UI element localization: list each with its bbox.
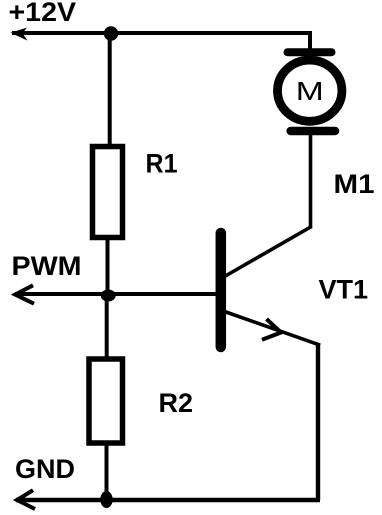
node junction at +12V rail: [104, 26, 118, 40]
emitter arrowhead: [262, 319, 281, 340]
svg-text:PWM: PWM: [12, 251, 82, 281]
node junction at GND rail: [100, 491, 112, 508]
wire R2 to GND rail: [105, 443, 109, 500]
resistor R2: [89, 359, 123, 443]
svg-text:R1: R1: [146, 148, 178, 178]
resistor R1: [93, 147, 123, 238]
svg-text:M: M: [296, 76, 324, 106]
arrowhead +12V input: [11, 28, 28, 41]
wire PWM node to R2: [105, 294, 109, 360]
emitter lead: [225, 312, 321, 346]
motor top brush bar: [288, 48, 332, 56]
wire GND rail: [16, 498, 320, 503]
arrowhead GND input: [17, 490, 35, 509]
svg-text:GND: GND: [15, 454, 75, 484]
wire R1 to PWM node: [106, 237, 110, 294]
svg-text:M1: M1: [334, 169, 375, 199]
svg-text:R2: R2: [159, 388, 194, 418]
wire +12V top rail: [12, 31, 312, 35]
wire emitter to GND rail: [316, 344, 320, 501]
base bar: [216, 233, 227, 347]
motor M1: [278, 52, 342, 131]
wire PWM rail: [15, 292, 216, 296]
arrowhead PWM input: [15, 285, 34, 303]
motor body circle: [278, 60, 342, 121]
transistor VT1: [221, 227, 320, 348]
motor bottom brush bar: [291, 127, 335, 136]
collector lead: [225, 227, 312, 277]
wire +12V rail to motor: [308, 33, 312, 50]
wire +12V rail to R1: [108, 33, 112, 147]
svg-text:+12V: +12V: [9, 0, 77, 27]
node junction at PWM rail: [101, 290, 116, 302]
svg-text:VT1: VT1: [319, 275, 369, 305]
wire collector to motor: [309, 135, 313, 229]
